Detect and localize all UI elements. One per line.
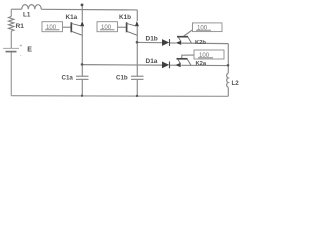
inductor L1: [22, 5, 42, 10]
svg-text:E: E: [27, 47, 32, 54]
wire D1a horizontal from C1a node: [82, 64, 162, 67]
wire C1b to bottom rail: [136, 80, 138, 96]
resistor R1: [9, 16, 14, 31]
inductor L2: [227, 73, 229, 87]
transistor K2a: [175, 59, 191, 67]
svg-text:R1: R1: [16, 23, 25, 30]
wire base lead box2 to K1b: [118, 26, 127, 28]
transistor K1a: [71, 21, 84, 35]
svg-text:K1a: K1a: [66, 14, 78, 21]
wire K2a base lead: [182, 55, 194, 58]
wire battery to bottom rail: [10, 52, 12, 96]
node dot bottom rail C1a: [81, 95, 83, 97]
wire D1b horizontal: [137, 41, 162, 43]
resistor box 100 (K2b base): [193, 23, 223, 32]
resistor box 100 (K1a base): [42, 22, 63, 32]
capacitor C1a: [76, 76, 89, 79]
resistor box 100 (K1b base): [97, 22, 118, 32]
svg-text:C1b: C1b: [116, 74, 128, 81]
resistor box 100 (K2a base): [194, 50, 224, 59]
wire K1b vertical below transistor to C1b: [136, 26, 138, 76]
svg-text:D1a: D1a: [146, 58, 158, 65]
wire R1 to battery: [10, 31, 12, 48]
svg-text:L2: L2: [232, 80, 240, 87]
wire D1a diode to K2a: [170, 64, 176, 66]
wire K1a vertical below transistor to C1a: [81, 26, 83, 76]
battery E plates: [3, 48, 19, 51]
svg-text:K1b: K1b: [119, 14, 131, 21]
node dot right vertical K2a: [227, 64, 230, 67]
wire right vertical K2b corner down: [227, 44, 229, 74]
transistor K1b: [127, 21, 139, 35]
svg-text:K2a: K2a: [196, 61, 207, 67]
diode D1b: [162, 39, 170, 46]
wire top rail left of L1: [11, 8, 22, 10]
wire D1b diode to K2b: [170, 42, 176, 44]
diode D1a: [162, 62, 170, 69]
svg-text:L1: L1: [23, 11, 31, 18]
node dot D1a start: [81, 63, 84, 66]
wire K2a to right vertical: [181, 64, 228, 66]
svg-text:C1a: C1a: [62, 74, 74, 81]
wire K1a collector vertical from top rail: [81, 5, 83, 21]
svg-text:D1b: D1b: [146, 36, 158, 43]
wire K1b vertical from top rail corner: [136, 10, 138, 21]
wire K2b base lead: [184, 30, 193, 37]
node dot top rail at K1a: [81, 4, 84, 7]
wire top rail right of L1: [41, 8, 137, 11]
svg-text:+: +: [20, 44, 23, 50]
capacitor C1b: [131, 76, 144, 79]
node dot bottom rail C1b: [136, 95, 138, 97]
node dot D1b start: [136, 41, 139, 44]
wire base lead box1 to K1a: [63, 26, 72, 28]
wire L2 to bottom rail: [227, 87, 229, 96]
wire left vertical top (R1 to top rail): [10, 9, 12, 16]
bottom rail: [11, 95, 228, 98]
svg-text:K2b: K2b: [195, 40, 206, 46]
wire K2b emitter to collector run: [181, 42, 228, 45]
transistor K2b: [176, 37, 192, 45]
wire C1a to bottom rail: [81, 80, 83, 96]
